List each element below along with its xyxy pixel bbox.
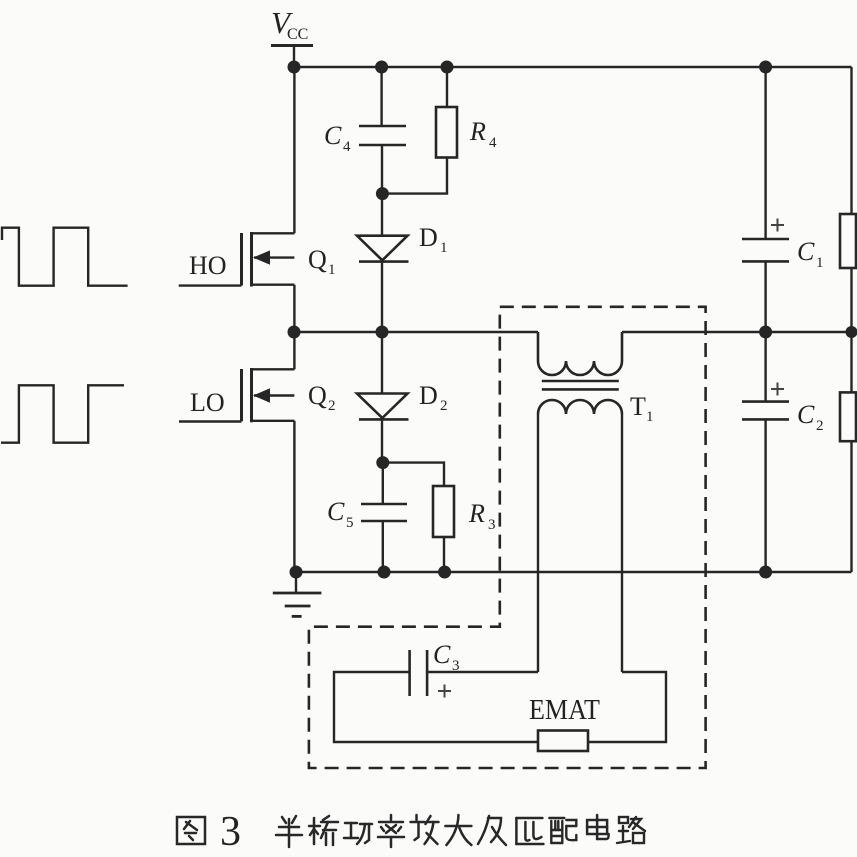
- caption char 桥: [309, 816, 338, 845]
- label C3: [433, 640, 460, 674]
- capacitor C2: [742, 402, 789, 420]
- wire R4 bottom lead to node: [382, 158, 447, 194]
- node top rail C4 junction: [375, 61, 388, 74]
- label C5: [327, 497, 354, 531]
- capacitor C5: [361, 504, 407, 521]
- svg-text:R: R: [469, 117, 486, 146]
- wire Q1 source to mid rail: [293, 285, 295, 332]
- svg-text:EMAT: EMAT: [529, 695, 600, 726]
- svg-text:HO: HO: [189, 251, 227, 280]
- diode D2: [357, 394, 409, 420]
- svg-text:1: 1: [328, 262, 336, 278]
- svg-text:Q: Q: [308, 245, 327, 274]
- caption char 半: [276, 816, 302, 847]
- node top rail left junction: [288, 61, 301, 74]
- wire C3 left plate to bottom loop: [334, 672, 538, 742]
- svg-text:C: C: [324, 121, 342, 150]
- resistor R4: [436, 107, 457, 158]
- transistor Q1 (MOSFET): [242, 232, 295, 287]
- caption char 配: [549, 818, 576, 843]
- EMAT transducer: [538, 731, 588, 752]
- label D1: [419, 223, 448, 256]
- svg-text:2: 2: [816, 418, 824, 434]
- svg-text:5: 5: [346, 515, 354, 531]
- wire node to C5 top: [382, 463, 384, 504]
- resistor load lower (right edge): [840, 392, 856, 441]
- wire C1 top lead: [764, 67, 766, 239]
- wire secondary left leg: [537, 414, 539, 672]
- capacitor C2 polarity +: [771, 383, 784, 396]
- capacitor C3 polarity +: [438, 685, 451, 698]
- svg-text:4: 4: [343, 139, 351, 155]
- node mid rail Q junction: [288, 326, 301, 339]
- capacitor C1: [742, 239, 789, 261]
- node top rail R4 junction: [441, 61, 454, 74]
- label C1: [797, 237, 824, 271]
- wire EMAT to secondary right leg: [588, 672, 666, 742]
- wire HO gate lead: [179, 284, 242, 286]
- wire mid rail left: [294, 331, 538, 333]
- svg-text:2: 2: [440, 398, 448, 414]
- node bottom rail ground junction: [290, 566, 303, 579]
- transformer T1 secondary winding: [538, 400, 622, 414]
- transformer T1 core: [542, 381, 619, 389]
- wire C2 top lead: [764, 332, 766, 402]
- capacitor C3: [410, 650, 428, 696]
- caption char 路: [617, 817, 645, 843]
- wire right edge lower-mid segment: [850, 332, 852, 392]
- label D2: [419, 381, 448, 414]
- svg-text:C: C: [797, 400, 815, 429]
- wire Q2 source to bottom rail: [293, 421, 295, 572]
- wire C4 top lead: [380, 67, 382, 126]
- wire mid rail right: [622, 331, 852, 333]
- Vcc supply symbol: [271, 5, 313, 46]
- svg-text:LO: LO: [190, 388, 225, 417]
- node top rail C1 junction: [759, 61, 772, 74]
- caption char 及: [478, 816, 506, 845]
- wire C5 bottom to bottom rail: [382, 521, 384, 572]
- label C2: [797, 400, 824, 434]
- svg-text:C: C: [433, 640, 451, 669]
- HO input square wave: [2, 228, 128, 286]
- wire LO gate lead: [179, 420, 242, 422]
- svg-text:R: R: [468, 499, 485, 528]
- node bottom rail C2 junction: [759, 566, 772, 579]
- wire secondary right leg: [621, 414, 623, 672]
- node mid rail D junction: [376, 326, 389, 339]
- wire bottom rail: [296, 571, 852, 573]
- resistor load upper (right edge): [840, 214, 856, 268]
- svg-text:3: 3: [452, 658, 460, 674]
- svg-text:3: 3: [220, 809, 241, 855]
- dashed matching-network box: [309, 307, 706, 768]
- svg-text:3: 3: [488, 517, 496, 533]
- LO input square wave: [1, 385, 124, 442]
- node mid rail right edge junction: [846, 326, 857, 338]
- transistor Q2 (MOSFET): [242, 368, 295, 422]
- svg-text:C: C: [797, 237, 815, 266]
- label T1: [630, 392, 654, 425]
- svg-text:C: C: [327, 497, 345, 526]
- node C4/R4/D1 junction: [376, 187, 389, 200]
- wire C1 bottom lead: [764, 261, 766, 332]
- wire Q1 drain to top rail: [293, 67, 295, 233]
- caption char 放: [411, 815, 439, 844]
- wire C4 bottom lead: [381, 145, 383, 194]
- wire node to D1 anode: [381, 194, 383, 236]
- wire mid rail to D2 anode: [381, 332, 383, 394]
- wire top rail: [294, 66, 852, 68]
- node bottom rail R3 junction: [438, 566, 451, 579]
- label Q2: [308, 381, 336, 414]
- capacitor C4: [359, 126, 406, 145]
- svg-text:CC: CC: [287, 26, 308, 43]
- wire R3 bottom to bottom rail: [443, 537, 445, 572]
- transformer T1 primary winding: [538, 332, 622, 375]
- node D2/C5/R3 junction: [376, 456, 389, 469]
- wire node to R3 top: [383, 463, 444, 486]
- ground: [273, 572, 322, 616]
- svg-text:D: D: [419, 381, 438, 410]
- node mid rail C1/C2 junction: [759, 326, 772, 339]
- svg-text:4: 4: [489, 135, 497, 151]
- wire right edge bottom segment: [850, 441, 852, 572]
- label R4: [469, 117, 497, 151]
- wire R4 top lead: [446, 67, 448, 107]
- caption char 匹: [516, 818, 543, 844]
- caption char 电: [587, 815, 609, 839]
- diode D1: [357, 236, 409, 262]
- svg-text:2: 2: [328, 398, 336, 414]
- caption figure label 图: [177, 817, 205, 844]
- label C4: [324, 121, 351, 155]
- svg-text:D: D: [419, 223, 438, 252]
- svg-text:1: 1: [646, 409, 654, 425]
- resistor R3: [433, 486, 454, 537]
- svg-text:1: 1: [816, 255, 824, 271]
- capacitor C1 polarity +: [771, 219, 784, 232]
- wire C2 bottom lead: [764, 419, 766, 572]
- wire D2 cathode to node: [381, 419, 383, 462]
- node bottom rail C5 junction: [378, 566, 391, 579]
- wire right edge upper-mid segment: [850, 268, 852, 332]
- wire Vcc to top rail: [293, 46, 295, 68]
- svg-text:1: 1: [440, 240, 448, 256]
- svg-text:T: T: [630, 392, 646, 421]
- caption char 大: [445, 815, 471, 845]
- wire Q2 drain to mid rail: [293, 332, 295, 369]
- wire right edge top segment: [850, 67, 852, 214]
- caption char 率: [378, 815, 404, 847]
- wire D1 cathode to mid rail: [381, 262, 383, 332]
- caption char 功: [344, 823, 372, 844]
- svg-text:Q: Q: [308, 381, 327, 410]
- wire secondary left leg to C3: [427, 671, 538, 673]
- label R3: [468, 499, 496, 533]
- label Q1: [308, 245, 336, 278]
